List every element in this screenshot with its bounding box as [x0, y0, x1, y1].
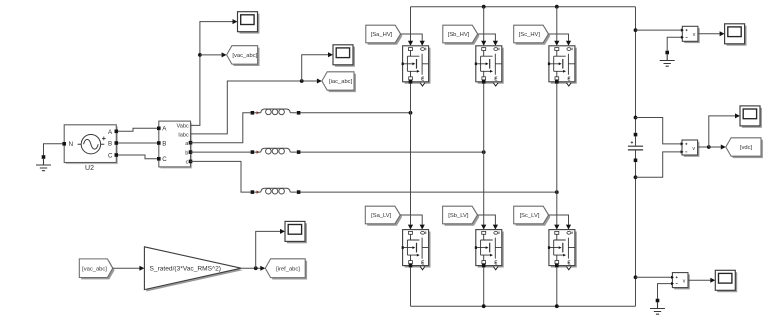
arrow drain Q2 — [481, 41, 486, 46]
wire VM1 to scope4 — [698, 33, 720, 35]
svg-text:[Sb_HV]: [Sb_HV] — [448, 32, 470, 38]
junction bus cap bottom — [634, 175, 638, 179]
from tag Sc_LV — [514, 206, 551, 226]
wire gate Sb_HV — [478, 34, 496, 41]
arrow into gain — [139, 266, 144, 271]
scope1 — [238, 12, 260, 34]
goto tag vdc — [726, 138, 763, 158]
wire phase a to leg1 — [300, 112, 410, 114]
junction bottom bus leg3 — [555, 304, 559, 308]
arrow gate Q3 — [566, 41, 571, 46]
wire C source to meter — [118, 155, 157, 159]
port A meter — [157, 127, 161, 131]
wire cap top to VM2 plus — [636, 118, 683, 144]
inductor Lc — [251, 188, 301, 194]
wire leg3 lower — [556, 267, 558, 306]
arrow gate Q6 — [566, 225, 571, 230]
arrow into scope3 — [280, 229, 285, 234]
junction phase a leg1 — [409, 111, 413, 115]
wire phase a to inductor — [191, 113, 251, 143]
arrow into scope6 — [710, 278, 715, 283]
arrow drain Q5 — [481, 225, 486, 230]
port A source — [115, 130, 119, 134]
junction phase c leg3 — [555, 190, 559, 194]
wire VM3 plus — [636, 276, 673, 278]
junction vac — [198, 53, 202, 57]
wire gate Sa_LV — [400, 215, 422, 225]
svg-text:[vdc]: [vdc] — [740, 145, 753, 151]
arrow into scope5 — [735, 113, 740, 118]
wire VM2 output — [698, 146, 709, 148]
arrow gate Q1 — [420, 41, 425, 46]
ground G3 — [650, 299, 665, 315]
goto tag iac_abc — [322, 72, 356, 92]
junction top bus leg2 — [482, 5, 486, 9]
svg-text:S_rated/(3*Vac_RMS^2): S_rated/(3*Vac_RMS^2) — [150, 266, 222, 273]
arrow drain Q3 — [554, 41, 559, 46]
wire leg2 upper — [483, 7, 485, 42]
wire VM3 minus to ground — [658, 284, 673, 299]
arrow into scope1 — [233, 19, 238, 24]
svg-text:B: B — [162, 140, 166, 147]
mosfet Q4 — [402, 230, 431, 270]
port c meter — [189, 160, 193, 164]
port b meter — [189, 150, 193, 154]
wire gate Sc_HV — [548, 34, 568, 41]
arrow into goto iref_abc — [260, 266, 265, 271]
source U2 — [64, 125, 118, 164]
three-phase VI measurement block — [159, 121, 192, 168]
svg-text:[vac_abc]: [vac_abc] — [82, 266, 107, 272]
wire cap bottom to VM2 minus — [636, 152, 683, 177]
wire Iabc to goto iac_abc — [191, 81, 318, 134]
wire phase b to leg2 — [300, 151, 483, 153]
scope4 — [725, 24, 747, 46]
arrow gate Q2 — [493, 41, 498, 46]
wire leg2 middle — [483, 84, 485, 225]
wire gate Sb_LV — [477, 215, 495, 225]
mosfet Q5 — [475, 230, 504, 270]
inductor La — [251, 109, 301, 115]
svg-text:B: B — [108, 141, 112, 148]
wire phase c to inductor — [191, 161, 251, 192]
svg-text:[Sa_HV]: [Sa_HV] — [371, 32, 393, 38]
svg-text:b: b — [185, 150, 188, 156]
junction bus cap top — [634, 116, 638, 120]
arrow drain Q1 — [408, 41, 413, 46]
junction iac — [300, 79, 304, 83]
arrow gate Q5 — [493, 225, 498, 230]
port B meter — [157, 141, 161, 145]
junction top bus leg3 — [555, 5, 559, 9]
wire B source to meter — [118, 142, 157, 144]
port C meter — [157, 157, 161, 161]
mosfet Q2 — [475, 46, 504, 86]
voltage measurement VM3 — [671, 273, 690, 290]
wire branch to scope3 — [256, 231, 281, 268]
wire leg1 lower — [410, 267, 412, 306]
wire phase c to leg3 — [300, 191, 556, 193]
voltage measurement VM1 — [681, 26, 700, 43]
wire top DC bus — [411, 6, 636, 8]
mosfet Q6 — [548, 230, 577, 270]
wire leg2 lower — [483, 267, 485, 306]
wire N to ground — [44, 144, 63, 155]
svg-text:[Sc_HV]: [Sc_HV] — [519, 32, 541, 38]
wire VM1 minus to ground — [667, 37, 682, 50]
junction bus VM3 tap — [634, 275, 638, 279]
from tag Sa_LV — [365, 206, 402, 226]
arrow into goto vac_abc — [222, 52, 227, 57]
svg-text:[iref_abc]: [iref_abc] — [276, 266, 300, 272]
wire Vabc to scope1 — [191, 22, 233, 126]
wire right DC bus upper — [635, 7, 637, 133]
wire leg3 middle — [556, 84, 558, 225]
junction iref — [254, 266, 258, 270]
ground G2 — [660, 51, 675, 66]
wire leg1 upper — [410, 7, 412, 42]
junction bottom bus leg2 — [482, 304, 486, 308]
junction bus VM1 tap — [634, 28, 638, 32]
wire leg1 middle — [410, 84, 412, 225]
wire gate Sa_HV — [401, 34, 423, 41]
wire branch to goto vac_abc — [200, 54, 222, 56]
svg-text:Iabc: Iabc — [178, 132, 189, 138]
wire branch to goto vdc — [709, 146, 721, 148]
port a meter — [189, 141, 193, 145]
from tag vac_abc bottom — [79, 259, 114, 280]
arrow drain Q4 — [408, 225, 413, 230]
port N — [62, 142, 66, 146]
arrow into goto iac_abc — [317, 79, 322, 84]
svg-text:[Sc_LV]: [Sc_LV] — [520, 213, 540, 219]
wire right DC bus lower — [635, 162, 637, 306]
svg-text:[vac_abc]: [vac_abc] — [232, 53, 257, 59]
wire branch to scope5 — [709, 116, 735, 147]
svg-text:C: C — [108, 153, 113, 160]
wire vac_abc to gain — [113, 267, 140, 269]
ground G1 — [36, 155, 51, 171]
voltage measurement VM2 — [681, 140, 700, 157]
wire A source to meter — [118, 128, 157, 131]
arrow drain Q6 — [554, 225, 559, 230]
scope2 — [333, 45, 355, 67]
gain block S_rated — [144, 247, 243, 292]
svg-text:[Sa_LV]: [Sa_LV] — [371, 213, 392, 219]
svg-text:U2: U2 — [85, 165, 94, 172]
svg-text:C: C — [162, 156, 167, 163]
wire branch to scope2 — [302, 55, 329, 81]
arrow into goto vdc — [721, 145, 726, 150]
from tag Sc_HV — [514, 25, 551, 44]
capacitor C1 — [628, 133, 643, 162]
wire gate Sc_LV — [549, 215, 569, 225]
mosfet Q3 — [548, 46, 577, 86]
arrow into scope2 — [328, 52, 333, 57]
junction vdc — [707, 145, 711, 149]
svg-text:[iac_abc]: [iac_abc] — [329, 79, 353, 85]
wire gain output — [241, 267, 260, 269]
port C source — [115, 153, 119, 157]
wire VM3 to scope6 — [688, 279, 711, 281]
scope6 — [715, 270, 737, 292]
wire phase b to inductor — [191, 151, 251, 153]
from tag Sb_HV — [443, 25, 480, 44]
port B source — [115, 141, 119, 145]
goto tag vac_abc — [227, 46, 260, 66]
wire VM1 plus — [636, 29, 683, 31]
arrow into scope4 — [720, 31, 725, 36]
wire bottom DC bus — [411, 305, 636, 307]
svg-text:[Sb_LV]: [Sb_LV] — [448, 213, 469, 219]
scope3 — [285, 221, 307, 243]
junction phase b leg2 — [482, 150, 486, 154]
svg-text:N: N — [69, 141, 73, 148]
inductor Lb — [251, 148, 301, 154]
wire leg3 upper — [556, 7, 558, 42]
from tag Sb_LV — [443, 206, 480, 226]
goto tag iref_abc — [265, 259, 307, 280]
scope5 — [740, 106, 762, 128]
mosfet Q1 — [402, 46, 431, 86]
svg-text:c: c — [186, 160, 189, 166]
from tag Sa_HV — [366, 25, 403, 44]
svg-text:Vabc: Vabc — [176, 124, 189, 130]
arrow gate Q4 — [420, 225, 425, 230]
